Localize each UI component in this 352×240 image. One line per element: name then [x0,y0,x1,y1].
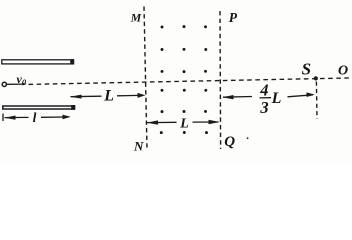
svg-text:L: L [271,90,282,107]
fraction bar [260,97,272,99]
dimension arrow l (plate length) [3,114,65,122]
charged particle [2,82,6,86]
magnetic field dot grid [160,25,208,134]
velocity arrow v0 [7,83,27,86]
svg-text:4: 4 [259,81,268,100]
svg-text:L: L [103,88,114,105]
stray ink speck right of Q [247,137,249,139]
upper deflection plate [2,59,74,64]
svg-text:L: L [179,117,189,132]
svg-text:N: N [133,139,144,154]
dimension arrow L (plates to MN) [71,95,140,96]
svg-text:l: l [33,110,37,125]
point S [314,76,318,80]
svg-text:S: S [302,60,311,79]
dimension arrow 4/3 L (PQ to S) [223,95,313,97]
svg-text:M: M [130,10,142,24]
center dashed axis line [29,78,350,84]
dashed vertical below S [315,82,318,120]
dashed boundary line PQ [219,11,222,149]
dashed boundary line MN [144,7,147,150]
dimension arrow L (MN to PQ) [147,121,219,124]
svg-text:P: P [229,10,238,25]
svg-text:Q: Q [224,134,235,150]
svg-text:3: 3 [259,98,268,117]
lower deflection plate [3,105,75,110]
svg-text:O: O [338,63,348,78]
